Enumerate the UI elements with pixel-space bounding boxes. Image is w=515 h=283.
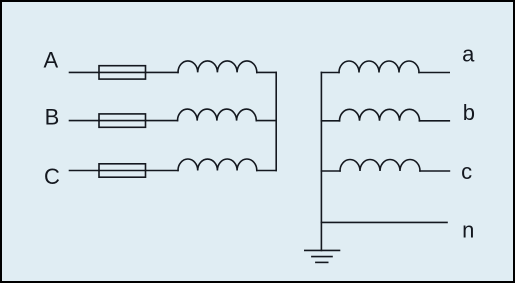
wire bus to coil L4 [321, 72, 339, 74]
wire B to fuse [70, 120, 100, 122]
svg-text:n: n [462, 218, 474, 243]
wire fuse F3 through [99, 170, 146, 172]
svg-text:c: c [461, 159, 472, 184]
svg-text:A: A [44, 48, 59, 73]
svg-text:a: a [462, 42, 475, 67]
inductor L5 (secondary winding phase b) [340, 109, 420, 120]
wire coil L1 to primary bus [257, 71, 276, 73]
fuse F3 [99, 164, 146, 177]
inductor L2 (primary winding phase B) [178, 109, 257, 121]
wire neutral n [321, 221, 447, 223]
svg-text:b: b [463, 100, 475, 125]
wire bus to coil L5 [321, 120, 339, 122]
fuse F1 [99, 66, 146, 79]
fuse F2 [99, 114, 146, 127]
wire A to fuse [70, 71, 100, 73]
wire fuse F1 to coil L1 [146, 71, 179, 73]
wire secondary neutral bus (vertical) [320, 72, 322, 250]
inductor L6 (secondary winding phase c) [340, 160, 420, 171]
wire primary neutral bus (vertical) [275, 72, 277, 170]
wire fuse F2 through [99, 120, 146, 122]
wire bus to coil L6 [321, 170, 340, 172]
wire coil L2 to primary bus [256, 120, 276, 122]
wire C to fuse [70, 170, 100, 172]
inductor L4 (secondary winding phase a) [339, 61, 419, 73]
wire fuse F2 to coil L2 [146, 120, 178, 122]
inductor L1 (primary winding phase A) [178, 61, 257, 73]
ground [305, 250, 340, 262]
wire coil L4 to terminal a [419, 72, 449, 74]
svg-text:B: B [45, 105, 60, 130]
wire fuse F1 through [99, 71, 146, 73]
svg-text:C: C [44, 164, 60, 189]
wire coil L5 to terminal b [420, 120, 450, 122]
inductor L3 (primary winding phase C) [178, 159, 257, 171]
wire fuse F3 to coil L3 [146, 170, 179, 172]
wire coil L3 to primary bus [257, 170, 276, 172]
wire coil L6 to terminal c [420, 170, 449, 172]
